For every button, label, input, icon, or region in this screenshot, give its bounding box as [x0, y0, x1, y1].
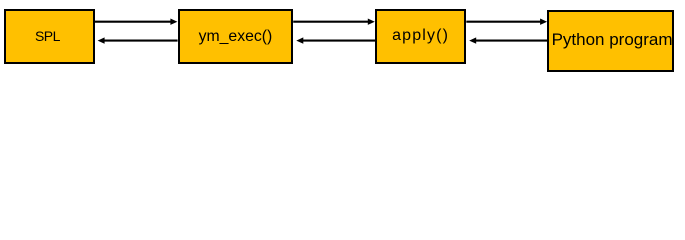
arrow right 3 — [466, 19, 547, 25]
arrow right 1 — [95, 19, 177, 25]
arrow right 2 — [293, 19, 375, 25]
box Python program — [547, 10, 674, 72]
arrow left 1 — [98, 37, 178, 43]
arrow left 2 — [296, 37, 375, 43]
box apply() — [375, 9, 466, 64]
arrows — [0, 0, 685, 79]
box SPL — [4, 9, 95, 64]
arrow left 3 — [469, 37, 547, 43]
box ym_exec() — [178, 9, 293, 64]
